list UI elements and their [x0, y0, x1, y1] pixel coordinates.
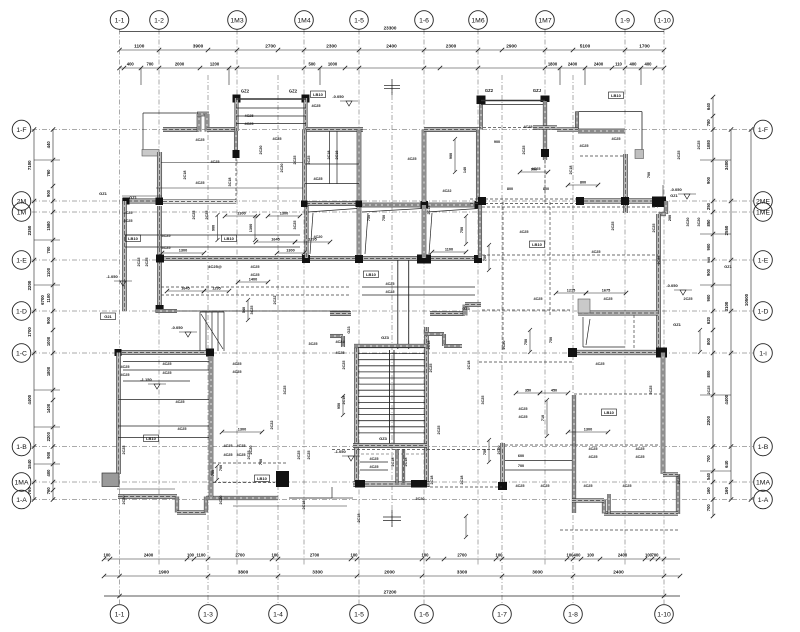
svg-text:2C25: 2C25 [342, 360, 346, 369]
entry steps diagonal [201, 314, 223, 349]
axis bubble 1-i (right) [754, 344, 773, 363]
svg-text:900: 900 [46, 316, 51, 324]
top dim drop line d [559, 68, 561, 85]
corridor beam b [362, 294, 475, 296]
svg-text:4C25: 4C25 [120, 373, 129, 377]
wall landing step west b [341, 336, 344, 347]
beam 1-B dashed2 [505, 444, 660, 446]
axis bubble 1M7 (top) [536, 11, 555, 30]
svg-text:4C25: 4C25 [311, 104, 320, 108]
axis bubble 2ME (right) [754, 192, 773, 211]
column shaft SE [356, 201, 363, 208]
right dim ticks [711, 95, 753, 518]
roof outline NE right [641, 112, 643, 150]
wall NE east lower [624, 154, 628, 213]
svg-text:4C25: 4C25 [533, 297, 542, 301]
left dim ticks h5 [34, 426, 60, 428]
svg-text:1-F: 1-F [758, 127, 768, 134]
column G22 c [477, 96, 486, 105]
beam left-upper a [125, 234, 300, 236]
wall SE interior stub [608, 494, 611, 514]
grid line 1-3 [207, 75, 209, 604]
svg-text:2700: 2700 [310, 553, 320, 558]
svg-text:2C25: 2C25 [649, 385, 653, 394]
svg-text:4C25: 4C25 [177, 427, 186, 431]
wall south SW b [177, 511, 206, 515]
left dim ticks h3 [34, 284, 60, 286]
svg-text:4C25: 4C25 [335, 340, 344, 344]
inner line 2M west [122, 195, 162, 197]
svg-text:100: 100 [496, 553, 504, 558]
svg-text:4C25: 4C25 [635, 455, 644, 459]
svg-text:1-7: 1-7 [497, 611, 507, 618]
svg-text:4C25@: 4C25@ [208, 264, 222, 269]
svg-text:4C25: 4C25 [250, 273, 259, 277]
grid line 1M6 [477, 30, 479, 567]
svg-text:4C25: 4C25 [123, 211, 132, 215]
column 1-C right b [656, 348, 667, 358]
svg-text:4C25: 4C25 [518, 415, 527, 419]
ramp diagonal c [429, 213, 432, 254]
svg-text:400: 400 [645, 62, 653, 67]
svg-text:2300: 2300 [326, 44, 337, 49]
svg-text:2000: 2000 [384, 570, 395, 575]
svg-text:G21: G21 [104, 314, 112, 319]
grid line 1-F [32, 129, 753, 131]
svg-text:640: 640 [706, 102, 711, 110]
svg-text:400: 400 [46, 469, 51, 477]
svg-text:1-4: 1-4 [273, 611, 283, 618]
wall SE east [661, 353, 665, 475]
svg-text:160: 160 [724, 487, 729, 495]
wall 1-D west stub [156, 309, 177, 312]
svg-text:250: 250 [706, 202, 711, 210]
dim 1295 room [293, 238, 332, 245]
ramp diagonal b [365, 213, 368, 254]
dim 800 center [566, 181, 600, 188]
svg-text:LB10: LB10 [604, 410, 615, 415]
svg-text:2C25: 2C25 [522, 145, 526, 154]
svg-text:2M: 2M [17, 198, 27, 205]
svg-text:LB10: LB10 [313, 92, 324, 97]
svg-text:2C18: 2C18 [342, 395, 346, 404]
svg-text:800: 800 [706, 337, 711, 345]
column 1-E a [302, 255, 310, 263]
svg-text:140: 140 [463, 167, 467, 173]
top dim drop line a [140, 68, 142, 85]
svg-text:700: 700 [518, 464, 524, 468]
svg-text:100: 100 [272, 553, 280, 558]
wall north-left [163, 127, 199, 131]
svg-text:1-A: 1-A [16, 497, 27, 504]
beam dashed right room top [482, 206, 658, 208]
svg-text:4C25: 4C25 [407, 157, 416, 161]
svg-text:2300: 2300 [706, 415, 711, 425]
svg-text:900: 900 [706, 268, 711, 276]
svg-text:4C25: 4C25 [635, 447, 644, 451]
svg-text:3C20: 3C20 [415, 497, 424, 501]
svg-text:750: 750 [259, 459, 263, 465]
svg-text:800: 800 [706, 370, 711, 378]
svg-text:750: 750 [367, 215, 371, 221]
axis bubble 1-3 (bottom) [199, 605, 218, 624]
room divider b / grid 1-6 wall [422, 205, 426, 258]
right dim line 1 [712, 97, 714, 516]
right dim tick h4 [700, 394, 731, 396]
beam dashed mid-right room [479, 361, 572, 363]
bottom dim row1 line [104, 558, 680, 560]
svg-text:440: 440 [46, 141, 51, 149]
column 2M west b [156, 198, 164, 206]
svg-text:1-8: 1-8 [568, 611, 578, 618]
notch vertical [331, 487, 333, 498]
svg-text:2C18: 2C18 [430, 475, 434, 484]
wall 2ME right [578, 199, 666, 204]
level marker -0.050 top b [332, 94, 358, 106]
room divider a [305, 205, 308, 258]
dim 1675 right [584, 289, 628, 296]
grid line 1M4 [303, 30, 305, 567]
level marker -0.050 ne [670, 187, 696, 199]
wall step upper-left [142, 150, 159, 157]
dim 1300 se [566, 428, 610, 435]
svg-text:4C25: 4C25 [622, 484, 631, 488]
svg-text:GZ3: GZ3 [381, 335, 390, 340]
svg-text:GZ3: GZ3 [462, 307, 469, 311]
svg-text:4C25: 4C25 [162, 371, 171, 375]
bottom dim row1 ticks [102, 557, 666, 561]
svg-text:2C25: 2C25 [677, 150, 681, 159]
svg-text:760: 760 [46, 487, 51, 495]
notch right of column [289, 497, 332, 499]
room divider c [478, 205, 481, 258]
beam 1-B dashed3 [332, 449, 502, 451]
wall stub tee [533, 126, 557, 130]
svg-text:2700: 2700 [265, 44, 276, 49]
flue room line right [582, 317, 584, 347]
top dimension line row1 [120, 49, 665, 51]
svg-text:950: 950 [337, 403, 341, 409]
grid line 2M [32, 200, 753, 202]
svg-text:1-i: 1-i [759, 350, 767, 357]
beam balcony1 top [236, 98, 306, 100]
svg-text:4C25: 4C25 [244, 114, 253, 118]
svg-text:200: 200 [668, 215, 672, 221]
beam left-top b [156, 187, 303, 189]
svg-text:GZ1: GZ1 [129, 195, 138, 200]
stair room dashed row [361, 453, 424, 455]
svg-text:1-5: 1-5 [354, 17, 364, 24]
svg-text:1M: 1M [17, 209, 27, 216]
svg-text:1100: 1100 [445, 248, 453, 252]
svg-text:1-1: 1-1 [115, 17, 125, 24]
boxed label shaft [311, 91, 326, 98]
svg-text:850: 850 [706, 219, 711, 227]
svg-text:2C25: 2C25 [307, 155, 311, 164]
svg-text:2C18: 2C18 [460, 475, 464, 484]
wall SE south b [572, 499, 604, 503]
axis bubble 1M3 (top) [228, 11, 247, 30]
svg-text:LB10: LB10 [611, 93, 622, 98]
beam dashed SW corridor a [213, 462, 288, 464]
dim 1300 a [223, 212, 260, 219]
grid line 1-5 [358, 30, 360, 605]
dim 1645 room [254, 238, 297, 245]
svg-text:1100: 1100 [134, 44, 145, 49]
svg-text:2400: 2400 [613, 570, 624, 575]
svg-text:2C20: 2C20 [219, 495, 223, 504]
wall 1-D step v [463, 305, 467, 316]
svg-text:3100: 3100 [724, 301, 729, 311]
axis bubble 1-A (left) [12, 490, 31, 509]
svg-text:1-2: 1-2 [154, 17, 164, 24]
svg-text:1M4: 1M4 [297, 17, 310, 24]
svg-text:2C25: 2C25 [247, 450, 251, 459]
wall 1-C right [570, 350, 665, 355]
svg-text:1-D: 1-D [758, 308, 769, 315]
wall balcony1 left [235, 98, 238, 131]
line 1-D west [177, 310, 350, 312]
dim 1300 left b [275, 249, 306, 256]
bottom dim row2 line [104, 575, 680, 577]
svg-text:4C25: 4C25 [588, 447, 597, 451]
svg-text:160: 160 [706, 487, 711, 495]
svg-text:900: 900 [706, 294, 711, 302]
svg-text:750: 750 [460, 227, 464, 233]
svg-text:2400: 2400 [594, 62, 604, 67]
svg-text:100: 100 [187, 553, 195, 558]
svg-text:4C25: 4C25 [232, 362, 241, 366]
svg-text:4C25: 4C25 [611, 137, 620, 141]
svg-text:1300: 1300 [238, 428, 246, 432]
beam SW d [118, 399, 212, 401]
svg-text:2C18: 2C18 [357, 513, 361, 522]
svg-text:4C25: 4C25 [175, 400, 184, 404]
beam balcony2 top [481, 100, 545, 102]
svg-text:750: 750 [483, 255, 487, 261]
right dim line 3 [750, 130, 752, 501]
column 1-C west b [206, 349, 214, 357]
beam SE interior [574, 393, 661, 395]
beam dashed right room h2 [482, 254, 658, 256]
svg-text:GZ3: GZ3 [379, 436, 388, 441]
svg-text:500: 500 [309, 62, 317, 67]
axis bubble 1-9 (top) [616, 11, 635, 30]
svg-text:900: 900 [494, 140, 500, 144]
left dim ticks h1 [34, 159, 60, 161]
shaft mullion a [329, 131, 331, 184]
svg-text:4400: 4400 [724, 394, 729, 404]
svg-text:1675: 1675 [602, 289, 610, 293]
left dim outer line [33, 130, 35, 500]
axis bubble 1-D (right) [754, 302, 773, 321]
level marker -1.050 west [106, 274, 132, 286]
column 1-C west a [115, 349, 122, 356]
left dim ticks h4 [34, 389, 60, 391]
boxed label b [364, 271, 379, 278]
svg-text:3C20: 3C20 [697, 217, 701, 226]
wall SE step east h [663, 473, 678, 477]
wall shaft left [303, 130, 307, 205]
svg-text:1700: 1700 [639, 44, 650, 49]
grid line 1-E [32, 259, 753, 261]
svg-text:4C25: 4C25 [518, 407, 527, 411]
entry steps top [200, 311, 224, 313]
svg-text:1580: 1580 [46, 221, 51, 231]
svg-text:1-1: 1-1 [115, 611, 125, 618]
svg-text:4C22: 4C22 [442, 189, 451, 193]
wall north center [424, 128, 478, 132]
svg-text:GZ1: GZ1 [724, 265, 731, 269]
svg-text:110: 110 [615, 62, 622, 67]
shaft rail a [305, 163, 359, 165]
wall interior 1M3 [234, 131, 237, 156]
left dim ticks h6 [34, 463, 60, 465]
corridor beam west a [161, 286, 350, 288]
svg-text:G23: G23 [347, 326, 351, 333]
column 1-E c [417, 255, 431, 264]
wall stair landing bottom [353, 444, 427, 448]
beam 1M7 lower dashed [544, 160, 546, 202]
svg-text:700: 700 [706, 504, 711, 512]
column G2J d [541, 96, 550, 103]
dim 700 low [464, 514, 468, 539]
svg-text:1-E: 1-E [758, 257, 769, 264]
column 2ME c [621, 197, 629, 205]
svg-text:1-A: 1-A [758, 497, 769, 504]
column room top a [421, 201, 429, 209]
grid line 1M [32, 211, 753, 213]
level marker -0.050 corridor [171, 325, 197, 337]
svg-text:2900: 2900 [506, 44, 517, 49]
svg-text:900: 900 [706, 176, 711, 184]
grid line 1M7 [544, 30, 546, 567]
bottom dim row3 ticks [117, 594, 666, 598]
svg-text:3C25: 3C25 [308, 342, 317, 346]
stair room beam a [360, 461, 388, 463]
axis bubble 1-5 (top) [350, 11, 369, 30]
stair treads [358, 348, 425, 433]
column 1-E d [474, 255, 482, 263]
svg-text:4C25: 4C25 [250, 265, 259, 269]
svg-text:2350: 2350 [27, 225, 32, 235]
svg-text:2300: 2300 [446, 44, 457, 49]
dim 700 mid [460, 214, 468, 246]
svg-text:1540: 1540 [27, 459, 32, 469]
svg-text:4C25: 4C25 [313, 177, 322, 181]
wall west upper [157, 152, 161, 202]
roof outline top [143, 112, 198, 114]
wall SW east [209, 357, 213, 497]
svg-text:750: 750 [382, 215, 386, 221]
svg-text:2C18: 2C18 [467, 360, 471, 369]
beam 2M east band [163, 200, 236, 204]
dim 450 b [538, 389, 570, 396]
svg-text:2700: 2700 [235, 553, 245, 558]
svg-text:1-D: 1-D [16, 308, 27, 315]
axis bubble 1-B (right) [754, 437, 773, 456]
wall SE south step v [602, 500, 606, 514]
right dim tick h3 [700, 284, 731, 286]
svg-text:2C25: 2C25 [307, 450, 311, 459]
svg-text:1900: 1900 [159, 570, 170, 575]
svg-text:GZ2: GZ2 [289, 89, 298, 94]
column interior 1M3 [233, 150, 240, 158]
wall north NE segment [557, 128, 578, 132]
wall 1-D left stub [330, 312, 351, 316]
svg-text:GZ2: GZ2 [241, 89, 250, 94]
svg-text:1-10: 1-10 [657, 611, 671, 618]
svg-text:4C25: 4C25 [123, 219, 132, 223]
grid line 1MA [32, 481, 753, 483]
grid line 1-B [32, 446, 753, 448]
top connector line [120, 31, 665, 33]
wall stair east [425, 327, 429, 487]
dim 700 ne [698, 328, 702, 354]
svg-text:620: 620 [706, 316, 711, 324]
svg-text:2200: 2200 [46, 431, 51, 441]
beam balcony2 line2 [481, 104, 545, 106]
wall east jog v [664, 201, 668, 214]
corridor beam a [362, 286, 475, 288]
grid line 1-7 [501, 75, 503, 604]
svg-text:4C25: 4C25 [272, 137, 281, 141]
svg-text:4C25: 4C25 [232, 370, 241, 374]
svg-text:100: 100 [587, 553, 595, 558]
svg-text:LB10: LB10 [532, 242, 543, 247]
column 2M west a [123, 198, 130, 205]
wall shaft bottom [306, 202, 359, 206]
axis bubble 1MA (left) [12, 473, 31, 492]
svg-text:2C25: 2C25 [707, 385, 711, 394]
svg-text:4C25: 4C25 [161, 246, 170, 250]
svg-text:1M7: 1M7 [538, 17, 551, 24]
wall NE jog block [635, 150, 644, 159]
dim 700 sw [211, 464, 219, 482]
axis bubble 1-6 (bottom) [415, 605, 434, 624]
column grid1-2 bottom [156, 305, 164, 313]
wall stair room v2 [402, 449, 405, 483]
svg-text:450: 450 [551, 389, 557, 393]
svg-text:4C25: 4C25 [385, 290, 394, 294]
svg-text:4C25: 4C25 [223, 444, 232, 448]
grid line 1-D [32, 310, 753, 312]
axis bubble 1-2 (top) [150, 11, 169, 30]
svg-text:750: 750 [524, 339, 528, 345]
wall notch top [197, 112, 209, 116]
svg-text:4C25: 4C25 [591, 250, 600, 254]
svg-text:2C20: 2C20 [122, 495, 126, 504]
wall notch left [197, 114, 201, 132]
column room top b [475, 201, 483, 209]
svg-text:LB10: LB10 [257, 476, 268, 481]
grid line 1-2 [158, 30, 160, 567]
beam SW a [123, 361, 210, 363]
svg-text:2C20: 2C20 [497, 445, 501, 454]
grid line 1-9 [624, 30, 626, 567]
axis bubble 2M (left) [12, 192, 31, 211]
svg-text:1-F: 1-F [16, 127, 26, 134]
svg-text:3C25: 3C25 [250, 305, 254, 314]
svg-text:710: 710 [541, 415, 545, 421]
wall landing step c [444, 344, 462, 347]
svg-text:800: 800 [543, 187, 549, 191]
svg-text:1000: 1000 [46, 336, 51, 346]
svg-text:2C25: 2C25 [122, 445, 126, 454]
wall grid 1M6 upper [476, 130, 479, 203]
beam left-upper b [125, 246, 300, 248]
dim 710 se [541, 398, 549, 438]
